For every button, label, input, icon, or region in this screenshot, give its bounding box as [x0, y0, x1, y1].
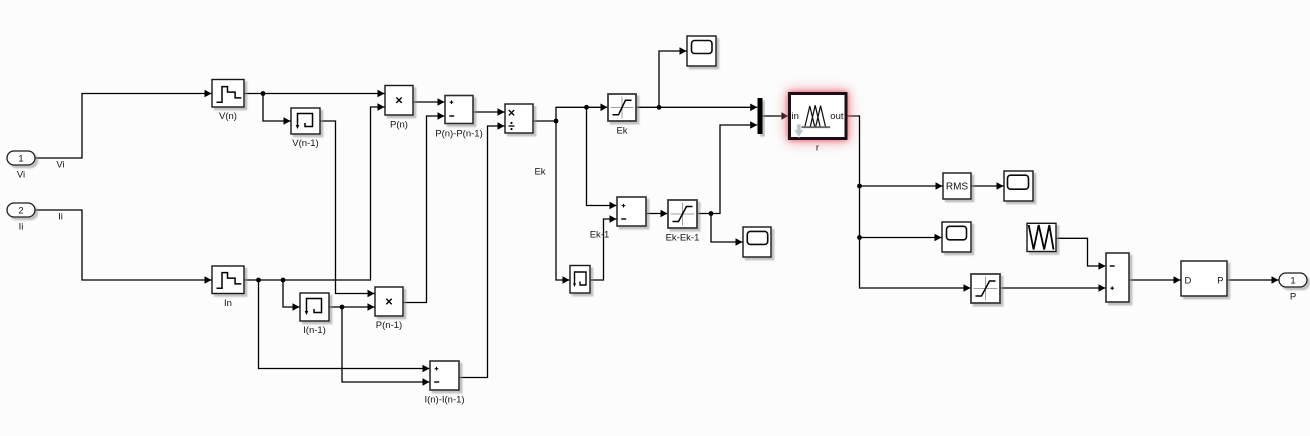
block Ek saturation [608, 94, 636, 137]
block scope3 [942, 222, 971, 252]
fuzzy membership triangles [805, 105, 826, 127]
wire branch I(n-1) to I(n)-I(n-1) minus [342, 307, 430, 382]
junction Ek feed [584, 105, 589, 110]
wire P(n) to sum plus [413, 101, 445, 103]
wire memory to sum Ek minus [590, 219, 617, 280]
svg-text:r: r [816, 143, 819, 154]
svg-text:V(n-1): V(n-1) [292, 138, 318, 149]
wire repeating sequence to sum minus [1056, 238, 1106, 266]
block sum Ek minus Ek-1 [617, 197, 646, 226]
wire branch to sum Ek plus [587, 107, 617, 205]
junction divide output [554, 119, 559, 124]
fuzzy baseline [801, 126, 830, 128]
block scope2 [743, 227, 771, 257]
wire branch In to I(n-1) [283, 280, 300, 307]
svg-text:out: out [830, 111, 844, 122]
svg-text:Vi: Vi [56, 160, 64, 171]
block In zero-order hold [212, 266, 244, 309]
wire RMS to scope4 [971, 185, 1004, 187]
wire D-P to outport P [1227, 279, 1279, 281]
junction V(n) output [261, 91, 266, 96]
svg-text:Ek-Ek-1: Ek-Ek-1 [666, 233, 700, 244]
svg-text:D: D [1185, 276, 1192, 287]
junction fuzzy out scope branch [857, 235, 862, 240]
wire branch to scope2 [711, 214, 743, 243]
svg-text:P(n): P(n) [390, 120, 408, 131]
block scope1 [687, 36, 716, 66]
junction Ek output [657, 105, 662, 110]
svg-text:Ek: Ek [534, 167, 545, 178]
wire branch In to I(n)-I(n-1) plus [259, 280, 430, 369]
wire Ek saturation to mux input1 [636, 106, 757, 108]
svg-text:2: 2 [18, 206, 23, 217]
svg-text:in: in [792, 111, 799, 122]
wire sum to Ek-Ek-1 saturation [646, 213, 668, 215]
wire saturation3 to sum plus [1000, 287, 1106, 289]
svg-text:I(n)-I(n-1): I(n)-I(n-1) [424, 395, 464, 406]
block P(n-1) product [375, 287, 403, 331]
inport 1 Vi [7, 151, 35, 181]
junction In output 2 [281, 278, 286, 283]
svg-text:V(n): V(n) [219, 111, 237, 122]
svg-text:P(n)-P(n-1): P(n)-P(n-1) [435, 129, 483, 140]
junction Ek-Ek-1 output [709, 211, 714, 216]
wire V(n) to P(n) input1 [244, 93, 385, 95]
svg-text:Ek-1: Ek-1 [590, 230, 610, 241]
wire I(n-1) to P(n-1) input2 [329, 306, 375, 308]
svg-text:Ii: Ii [58, 212, 63, 223]
block D-P subsystem [1181, 261, 1227, 296]
block memory (middle) [570, 266, 590, 294]
wire P(n)-P(n-1) to divide [473, 111, 505, 113]
block I(n-1) memory [300, 293, 329, 336]
wire P(n-1) to sum minus [403, 116, 445, 303]
fuzzy logic controller r [790, 94, 847, 154]
block repeating sequence [1027, 223, 1056, 251]
junction In output 1 [256, 278, 261, 283]
wire mux to fuzzy in [763, 115, 789, 117]
block divide [505, 104, 533, 133]
svg-text:P: P [1217, 276, 1223, 287]
block V(n-1) memory [291, 108, 320, 149]
wire branch to memory [556, 121, 570, 280]
fuzzy gray update arrow [794, 124, 804, 137]
junction I(n-1) output [340, 305, 345, 310]
block RMS [943, 173, 971, 199]
outport 1 P [1279, 273, 1307, 303]
wire In to P(n) input2 [244, 107, 385, 280]
wire Vi port to V(n) [35, 94, 212, 159]
inport 2 Ii [7, 203, 35, 233]
svg-text:Ii: Ii [19, 222, 24, 233]
svg-text:I(n-1): I(n-1) [303, 325, 326, 336]
block sum right [1106, 253, 1129, 302]
block saturation3 [971, 274, 1000, 303]
svg-text:RMS: RMS [946, 182, 969, 193]
wire Ii port to In [35, 210, 212, 280]
wire V(n-1) to P(n-1) input1 [320, 121, 375, 294]
block Ek-Ek-1 saturation [666, 200, 700, 244]
wire fuzzy out to saturation3 [848, 116, 971, 288]
wire branch to RMS [860, 185, 943, 187]
svg-text:1: 1 [1290, 276, 1295, 287]
wire sum to D-P subsystem [1129, 279, 1181, 281]
wire branch V(n) to V(n-1) [263, 94, 291, 122]
block V(n) zero-order hold [212, 80, 244, 123]
mux [758, 98, 763, 134]
block sum I(n)-I(n-1) [424, 361, 464, 406]
svg-text:Vi: Vi [17, 170, 25, 181]
svg-text:P: P [1290, 292, 1296, 303]
block P(n) product [385, 86, 413, 131]
wire branch to scope1 [659, 51, 687, 107]
svg-text:In: In [224, 298, 232, 309]
svg-text:Ek: Ek [616, 126, 627, 137]
wire divide to Ek saturation [533, 107, 608, 121]
block scope4 [1004, 171, 1033, 201]
svg-text:1: 1 [18, 154, 23, 165]
junction fuzzy out RMS branch [857, 184, 862, 189]
wire Ek-Ek-1 to mux input2 [697, 125, 757, 214]
wire I(n)-I(n-1) to divide bottom [459, 126, 505, 378]
svg-text:P(n-1): P(n-1) [376, 320, 402, 331]
block sum P(n)-P(n-1) [435, 96, 483, 140]
wire branch to scope3 [860, 237, 942, 239]
